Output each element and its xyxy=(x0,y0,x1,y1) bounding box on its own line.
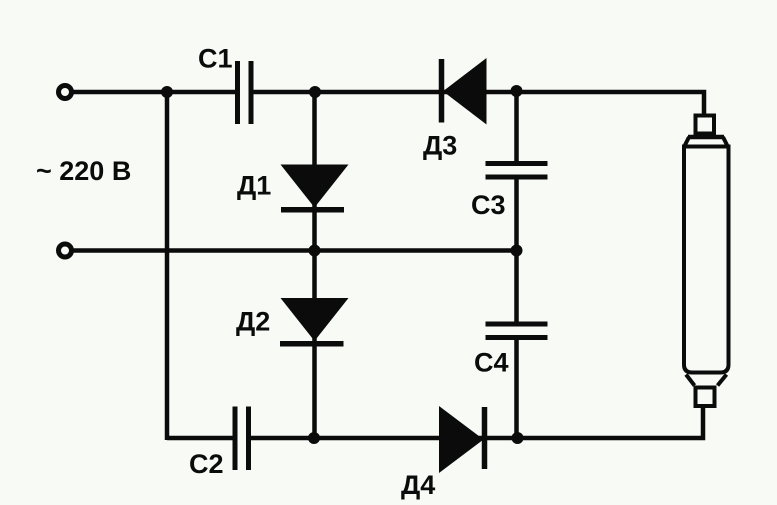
diode Д1 triangle xyxy=(281,165,349,208)
svg-text:Д2: Д2 xyxy=(236,307,270,337)
svg-text:C1: C1 xyxy=(198,44,233,74)
capacitor C4 bottom plate xyxy=(486,335,548,340)
input terminal top-left xyxy=(59,86,72,99)
wire bottom rail right segment with corner up to lamp xyxy=(249,404,703,438)
lamp bottom cap left slant xyxy=(686,375,695,386)
wire top rail right segment with corner down to lamp xyxy=(251,92,704,117)
wire middle rail xyxy=(73,248,517,253)
svg-text:Д4: Д4 xyxy=(401,470,435,500)
capacitor C3 top plate xyxy=(486,161,548,166)
lamp top pin box xyxy=(696,116,715,134)
svg-text:C4: C4 xyxy=(474,348,509,378)
lamp top cap left slant xyxy=(685,137,690,146)
lamp bottom cap right slant xyxy=(718,375,727,386)
diode Д4 cathode bar xyxy=(482,407,488,469)
capacitor C1 right plate xyxy=(249,61,254,124)
diode Д1 cathode bar xyxy=(281,207,344,213)
junction dot bottom rail / right vertical xyxy=(512,432,524,444)
diode Д3 triangle xyxy=(443,58,487,125)
svg-text:~ 220 В: ~ 220 В xyxy=(36,156,131,186)
lamp top cap collar line xyxy=(688,135,724,140)
capacitor C2 left plate xyxy=(233,407,238,471)
svg-text:C2: C2 xyxy=(189,449,224,479)
lamp tube body xyxy=(684,147,729,373)
capacitor C2 right plate xyxy=(246,407,251,471)
capacitor C4 top plate xyxy=(486,322,548,327)
wire top rail left segment xyxy=(73,90,237,95)
junction dot bottom rail / middle vertical xyxy=(308,432,320,444)
svg-text:Д3: Д3 xyxy=(423,131,457,161)
diode Д3 cathode bar xyxy=(439,59,445,123)
wire middle vertical branch (diode chain) xyxy=(312,92,317,438)
junction dot middle rail / right vertical xyxy=(511,245,523,257)
wire bottom rail left segment xyxy=(167,436,235,441)
wire right vertical C3 to middle rail xyxy=(514,179,519,251)
lamp bottom pin box xyxy=(696,388,715,407)
lamp top cap right slant xyxy=(723,137,728,146)
svg-text:C3: C3 xyxy=(471,190,506,220)
wire left vertical branch xyxy=(165,90,170,440)
diode Д2 triangle xyxy=(281,298,349,341)
junction dot top rail / middle vertical xyxy=(309,86,321,98)
svg-text:Д1: Д1 xyxy=(237,171,271,201)
capacitor C3 bottom plate xyxy=(486,175,548,180)
junction dot top rail / left vertical xyxy=(161,86,173,98)
wire right vertical middle rail to C4 xyxy=(514,251,519,323)
diode Д4 triangle xyxy=(439,406,484,473)
input terminal bottom-left xyxy=(59,244,72,257)
diode Д2 cathode bar xyxy=(280,341,344,347)
wire right vertical upper (to C3 top plate) xyxy=(514,91,519,162)
junction dot middle rail / middle vertical xyxy=(309,245,321,257)
wire right vertical C4 to bottom rail xyxy=(514,340,519,439)
capacitor C1 left plate xyxy=(235,61,240,124)
junction dot top rail / right vertical xyxy=(511,85,523,97)
